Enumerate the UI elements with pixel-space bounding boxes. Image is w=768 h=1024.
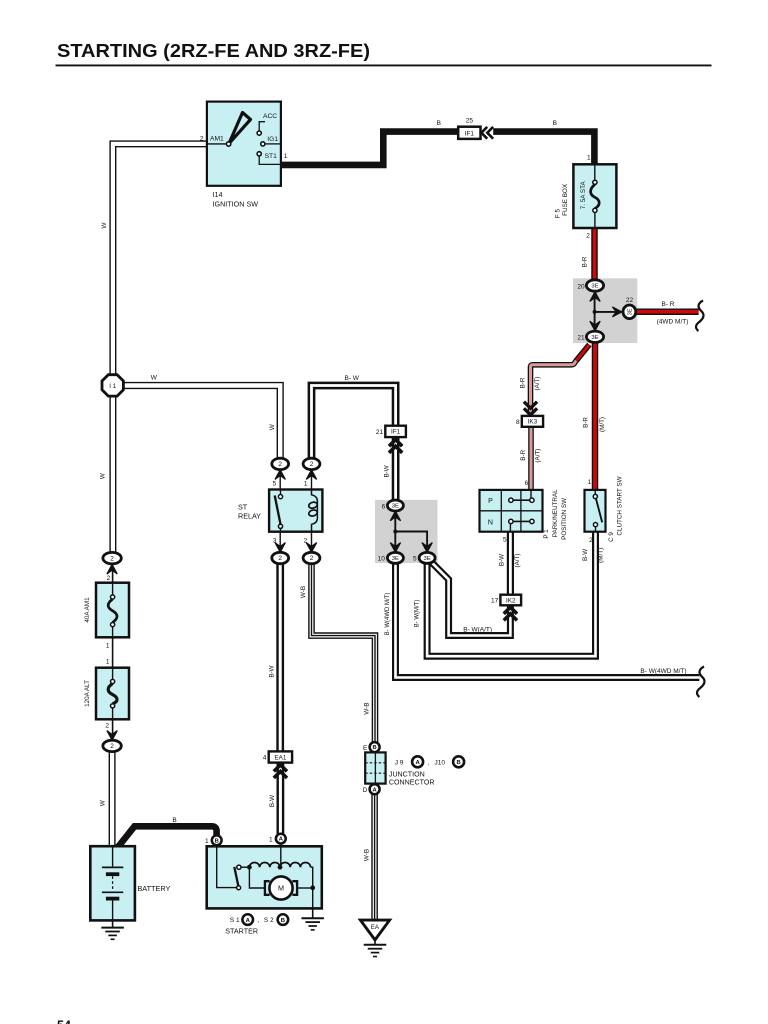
wire B-R (A/T) red stub at joint 21 <box>576 345 589 361</box>
wire B-W(4WD M/T): joint 10 3E to off-page <box>396 563 700 678</box>
clutch start SW C9 box <box>585 490 606 532</box>
wire W: node I1 to fuse AM1 joint <box>109 396 116 554</box>
svg-text:1: 1 <box>588 479 592 486</box>
svg-text:22: 22 <box>626 297 634 304</box>
svg-text:IG1: IG1 <box>267 136 278 143</box>
svg-text:5: 5 <box>503 537 507 544</box>
wire B-W: connector EA1 to starter terminal A <box>276 762 284 834</box>
svg-text:3E: 3E <box>628 308 634 315</box>
starter motor M <box>265 876 297 899</box>
arrow into joint 2 (battery side) <box>107 731 117 741</box>
wire B-R: joint 22 3E to 4WD M/T circuit <box>636 308 699 315</box>
svg-text:FUSE BOX: FUSE BOX <box>562 183 569 216</box>
svg-text:8: 8 <box>516 419 520 426</box>
terminal ST1 <box>257 152 280 165</box>
starter internal circuit <box>217 843 315 908</box>
svg-text:7. 5A STA: 7. 5A STA <box>580 181 587 210</box>
wire: joints to relay pins 5,1 <box>280 473 311 490</box>
label STARTER S1 S2 <box>225 914 288 935</box>
ground (EA) <box>364 945 387 957</box>
svg-text:2: 2 <box>107 575 111 582</box>
svg-text:,: , <box>258 917 260 924</box>
svg-text:B-W: B-W <box>269 665 276 677</box>
svg-text:J 9: J 9 <box>395 759 404 766</box>
svg-text:RELAY: RELAY <box>238 511 261 520</box>
off-page squiggle (B-R 4WD) <box>696 301 704 332</box>
fuse 40A AM1 <box>96 583 129 638</box>
junction dot (3E upper) <box>593 310 597 314</box>
svg-text:W: W <box>100 800 107 806</box>
joint connector 2 (relay pin 1) <box>303 458 320 469</box>
wire W: fuse ALT joint to battery <box>109 751 116 846</box>
svg-text:B-R: B-R <box>520 449 527 460</box>
label ST RELAY <box>238 503 261 521</box>
junction connector terminal D/A <box>370 784 380 794</box>
svg-text:B: B <box>281 918 285 924</box>
svg-text:EA: EA <box>371 924 380 931</box>
connector IF1 (21) <box>376 426 406 437</box>
svg-text:P 1: P 1 <box>543 529 550 539</box>
connector IK3 <box>516 416 543 427</box>
svg-text:20: 20 <box>577 283 585 290</box>
svg-text:(A/T): (A/T) <box>514 554 521 568</box>
wire: 3E internal links <box>395 515 427 548</box>
svg-text:40A AM1: 40A AM1 <box>84 597 91 623</box>
arrow into joint 5 3E <box>422 543 432 553</box>
svg-text:1: 1 <box>106 643 110 650</box>
svg-text:B: B <box>215 838 219 844</box>
svg-text:A: A <box>415 760 420 766</box>
relay ST box <box>269 490 322 532</box>
svg-text:6: 6 <box>525 480 529 487</box>
junction connector terminal E/B <box>370 742 380 752</box>
joint 21 3E <box>586 331 603 342</box>
wire B-W(A/T): park/neutral SW pin 3 to connector IK2 <box>507 532 514 595</box>
ignition switch lever <box>229 113 251 144</box>
wire: joint to fuse AM1 <box>112 568 114 583</box>
svg-text:B-R: B-R <box>520 377 527 388</box>
connector IF1 (25) <box>458 127 480 139</box>
wire B-W: connector IF1(21) to joint 6 3E <box>392 438 400 501</box>
relay coil <box>308 490 318 532</box>
svg-text:10: 10 <box>378 556 386 563</box>
fuse 120A ALT <box>96 668 129 720</box>
wire B-R: fuse F5 to joint 20 3E <box>591 228 598 280</box>
svg-text:17: 17 <box>491 598 499 605</box>
svg-text:1: 1 <box>205 838 209 845</box>
joint 10 3E <box>387 552 403 563</box>
svg-text:P: P <box>488 498 493 505</box>
connector EA1 <box>263 751 292 762</box>
wire B-R (A/T): connector IK3 to park/neutral SW pin 6 <box>528 427 534 490</box>
svg-text:C 9: C 9 <box>608 532 615 542</box>
svg-text:PARK/NEUTRAL: PARK/NEUTRAL <box>552 489 559 537</box>
battery <box>90 846 135 920</box>
joint connector 2 (above battery) <box>103 740 121 751</box>
svg-text:2: 2 <box>110 555 114 562</box>
svg-text:POSITION SW: POSITION SW <box>561 498 568 540</box>
svg-text:JUNCTION: JUNCTION <box>389 770 425 778</box>
wire W-B: ST relay pin 2 joint to junction connector E <box>312 564 376 743</box>
svg-text:(M/T): (M/T) <box>599 417 606 432</box>
svg-text:CONNECTOR: CONNECTOR <box>389 779 435 787</box>
svg-text:(4WD M/T): (4WD M/T) <box>657 319 689 326</box>
svg-text:ST: ST <box>238 503 248 512</box>
arrow into relay joint 3 <box>275 543 285 553</box>
svg-text:2: 2 <box>200 135 204 142</box>
junction connector J9/J10 box <box>365 752 385 783</box>
wire: fuse AM1 to fuse ALT <box>112 637 114 667</box>
joint connector 2 (relay pin 5) <box>272 458 289 469</box>
connector arrow IF1 25 <box>481 127 493 139</box>
arrow into joint 2 <box>107 564 117 574</box>
wire: fuse ALT to joint <box>112 719 114 737</box>
ground (starter) <box>301 918 324 930</box>
svg-text:STARTER: STARTER <box>225 927 258 936</box>
svg-text:B-W: B-W <box>269 795 276 807</box>
ignition switch I14 box <box>207 102 281 186</box>
wire B-W: ST relay pin 3 joint to connector EA1 <box>276 564 284 752</box>
junction block 3E shading (lower) <box>375 500 438 563</box>
terminal IG1 <box>261 136 280 146</box>
svg-text:STARTING (2RZ-FE AND 3RZ-FE): STARTING (2RZ-FE AND 3RZ-FE) <box>57 41 370 61</box>
svg-text:21: 21 <box>376 429 384 436</box>
junction dot (3E lower) <box>393 530 397 534</box>
svg-text:B: B <box>456 760 460 766</box>
svg-text:IF1: IF1 <box>465 130 475 137</box>
junction block 3E shading (upper) <box>573 278 637 343</box>
svg-text:I 1: I 1 <box>109 383 116 390</box>
svg-text:3E: 3E <box>591 335 598 341</box>
svg-text:M: M <box>278 884 284 893</box>
connector arrow EA1 <box>274 765 287 778</box>
svg-text:1: 1 <box>269 837 273 844</box>
node I1 (splice) <box>102 375 123 396</box>
svg-text:B- W(4WD M/T): B- W(4WD M/T) <box>385 593 391 636</box>
label I14 IGNITION SW <box>213 190 259 208</box>
wire: EA to ground <box>374 940 376 945</box>
svg-text:1: 1 <box>106 659 110 666</box>
arrow into joint 10 3E <box>390 543 400 553</box>
connector arrow IK3 <box>524 402 537 415</box>
svg-text:W: W <box>269 424 276 430</box>
wire: battery to ground <box>112 920 114 927</box>
svg-text:2: 2 <box>105 722 109 729</box>
connector arrow IK2 <box>504 607 517 620</box>
svg-text:,: , <box>428 759 430 766</box>
wire: starter to ground <box>312 908 314 917</box>
svg-text:IK2: IK2 <box>506 597 516 604</box>
relay switch contact <box>275 490 283 532</box>
svg-text:IK3: IK3 <box>528 419 538 426</box>
svg-text:ST1: ST1 <box>265 153 278 160</box>
wire W-B: junction connector A to ground EA <box>371 794 378 920</box>
svg-text:6: 6 <box>382 503 386 510</box>
svg-text:B- W(A/T): B- W(A/T) <box>463 627 492 634</box>
arrow into joint 22 3E <box>612 307 621 317</box>
park/neutral SW contacts <box>509 490 534 532</box>
wire: relay pins 3,2 to joints <box>280 532 311 549</box>
arrow into relay joint 2 <box>306 543 316 553</box>
arrow into joint 6 3E <box>390 511 400 521</box>
starter terminal B <box>212 835 222 845</box>
wire B-R (M/T): joint 21 3E to clutch start SW <box>592 343 599 490</box>
wire B: connector IF1(25) to fuse box F5 <box>493 132 594 165</box>
svg-text:I14: I14 <box>213 190 223 199</box>
svg-text:B- W: B- W <box>345 375 360 382</box>
wire W: ignition SW AM1 to node I1 <box>113 144 207 375</box>
svg-text:5: 5 <box>413 556 417 563</box>
connector IK2 <box>491 595 521 606</box>
wire B-R (A/T): joint 21 3E to connector IK3 <box>531 345 590 416</box>
svg-text:B- W(M/T): B- W(M/T) <box>414 600 420 628</box>
wire B: battery cable to starter terminal B <box>118 826 217 847</box>
arrow into joint 20 3E <box>590 292 600 302</box>
svg-text:E: E <box>363 745 368 752</box>
svg-text:W-B: W-B <box>363 702 370 714</box>
svg-text:W: W <box>100 473 107 479</box>
svg-text:4: 4 <box>263 755 267 762</box>
svg-text:W: W <box>101 222 108 228</box>
svg-text:54: 54 <box>57 1019 71 1024</box>
label J9 J10 junction connector <box>389 756 464 786</box>
svg-text:B-R: B-R <box>583 417 590 428</box>
svg-text:W-B: W-B <box>363 849 370 861</box>
wire: 3E internal links (upper) <box>595 297 616 327</box>
wire B: ignition SW ST1 to connector IF1(25) <box>281 132 458 165</box>
wire B-W: ST relay pin 1 joint to connector IF1(21) <box>312 386 396 459</box>
svg-text:B-W: B-W <box>383 465 390 477</box>
svg-text:2: 2 <box>310 461 314 468</box>
svg-text:1: 1 <box>304 480 308 487</box>
joint connector 2 (relay pin 3) <box>272 552 289 563</box>
svg-text:IF1: IF1 <box>391 429 401 436</box>
svg-text:B: B <box>172 817 176 824</box>
svg-text:B-R: B-R <box>582 256 589 267</box>
svg-text:2: 2 <box>586 233 590 240</box>
arrow into joint 21 3E <box>590 321 600 331</box>
svg-text:W: W <box>151 375 158 382</box>
svg-text:2: 2 <box>278 461 282 468</box>
svg-text:120A ALT: 120A ALT <box>84 680 91 707</box>
svg-text:S 2: S 2 <box>264 917 274 924</box>
svg-text:J10: J10 <box>435 759 446 766</box>
off-page squiggle (B-W 4WD) <box>697 667 705 698</box>
svg-text:21: 21 <box>577 335 585 342</box>
svg-text:B-W: B-W <box>582 549 589 561</box>
svg-text:B: B <box>437 120 441 127</box>
arrow into relay joint 5 <box>275 470 285 480</box>
svg-text:B: B <box>553 120 557 127</box>
svg-text:25: 25 <box>466 118 474 125</box>
svg-text:2: 2 <box>310 555 314 562</box>
svg-text:S 1: S 1 <box>230 917 240 924</box>
svg-text:BATTERY: BATTERY <box>137 884 170 893</box>
svg-text:D: D <box>363 787 368 794</box>
wire B-W(A/T): joint 5 3E to connector IK2 <box>430 560 511 635</box>
joint 6 3E <box>387 500 403 511</box>
svg-text:A: A <box>246 918 251 924</box>
svg-text:AM1: AM1 <box>210 136 224 143</box>
svg-text:3E: 3E <box>392 504 399 510</box>
svg-text:(A/T): (A/T) <box>534 377 541 391</box>
joint 22 3E <box>623 305 636 319</box>
starter terminal A <box>276 834 286 844</box>
svg-text:F 5: F 5 <box>554 209 561 219</box>
svg-text:3E: 3E <box>423 556 430 562</box>
svg-text:2: 2 <box>589 537 593 544</box>
wire W: node I1 to ST relay pin 5 joint <box>123 386 280 459</box>
svg-text:2: 2 <box>278 555 282 562</box>
ground (battery) <box>101 928 124 940</box>
svg-text:B- W(4WD M/T): B- W(4WD M/T) <box>640 668 686 675</box>
svg-text:CLUTCH START SW: CLUTCH START SW <box>616 476 623 535</box>
svg-text:B: B <box>373 745 377 751</box>
connector arrow IF1 21 <box>389 440 402 453</box>
svg-text:IGNITION SW: IGNITION SW <box>213 199 259 208</box>
svg-text:3E: 3E <box>591 284 598 290</box>
joint connector 2 (relay pin 2) <box>303 552 320 563</box>
joint 20 3E <box>586 280 603 291</box>
ground EA triangle <box>360 920 389 940</box>
svg-text:W-B: W-B <box>300 586 307 598</box>
terminal AM1 <box>207 136 231 147</box>
svg-text:(M/T): (M/T) <box>598 548 605 563</box>
svg-text:ACC: ACC <box>263 113 277 120</box>
svg-text:B-W: B-W <box>499 554 506 566</box>
fuse box F5 7.5A STA <box>573 164 616 228</box>
svg-text:N: N <box>488 519 493 526</box>
svg-text:B- R: B- R <box>662 301 675 308</box>
starter M box <box>207 846 322 908</box>
svg-text:(A/T): (A/T) <box>534 449 541 463</box>
svg-text:2: 2 <box>110 743 114 750</box>
svg-text:1: 1 <box>587 155 591 162</box>
svg-text:5: 5 <box>273 480 277 487</box>
joint connector 2 (above fuse AM1) <box>103 552 121 563</box>
joint 5 3E <box>419 552 435 563</box>
svg-text:1: 1 <box>284 153 288 160</box>
terminal ACC <box>257 113 277 135</box>
wire B-W(M/T): joint 5 3E to clutch start SW pin 2 <box>427 532 595 657</box>
svg-text:EA1: EA1 <box>274 754 287 761</box>
park/neutral position SW P1 box <box>480 490 543 532</box>
title underline <box>56 64 712 66</box>
svg-text:3E: 3E <box>392 556 399 562</box>
arrow into relay joint 1 <box>306 470 316 480</box>
